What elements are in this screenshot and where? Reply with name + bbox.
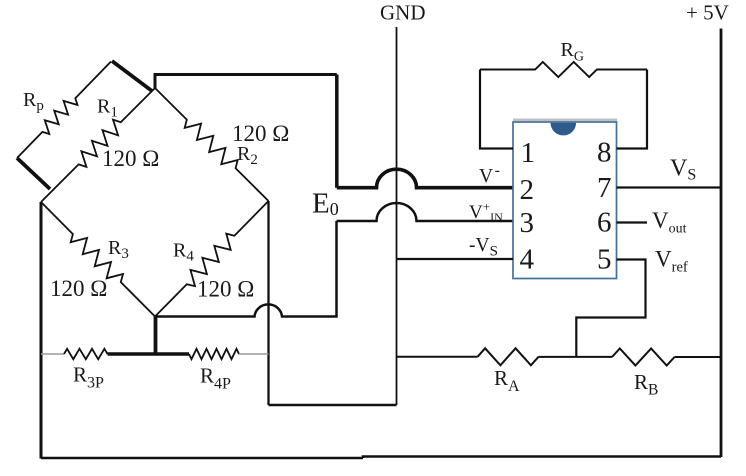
resistor R4 (bridge bottom-right arm): [155, 201, 269, 317]
svg-text:Vout: Vout: [652, 208, 687, 237]
wire: R3P to R4P (bold segment): [108, 352, 190, 356]
svg-text:GND: GND: [380, 1, 426, 25]
svg-text:120 Ω: 120 Ω: [197, 277, 254, 302]
resistor R4P: [189, 349, 239, 359]
svg-text:RB: RB: [634, 370, 658, 399]
wire: E0 lower terminal to IC pin 3 (hop over GND rail): [337, 203, 514, 221]
svg-text:R2: R2: [237, 143, 258, 168]
svg-text:RA: RA: [494, 366, 520, 395]
wire: RG to IC pin 8 (right leg): [617, 70, 648, 149]
svg-text:120 Ω: 120 Ω: [50, 276, 107, 301]
wire: bridge left node down (left rail): [40, 202, 43, 459]
wire: top rail down to E0 upper terminal: [335, 75, 339, 188]
svg-text:5: 5: [597, 244, 612, 276]
svg-text:6: 6: [597, 207, 612, 239]
wire: RA to RB (divider tap): [539, 356, 613, 358]
resistor R3 (bridge bottom-left arm): [41, 202, 155, 317]
svg-text:7: 7: [597, 172, 612, 204]
wire: IC pin 1 to RG (left leg): [480, 70, 513, 149]
wire: R4P to right branch (thin lead): [239, 353, 269, 355]
GND rail (vertical): [396, 27, 398, 405]
wire: bridge top node up to top rail: [155, 75, 337, 89]
svg-text:1: 1: [521, 137, 536, 169]
wire: E0 upper terminal to IC pin 2 (hop over GND rail): [337, 169, 513, 187]
svg-text:2: 2: [520, 174, 535, 206]
svg-text:E0: E0: [312, 188, 339, 220]
wire: bottom +5V return rail (right): [363, 457, 721, 459]
svg-text:Rp: Rp: [23, 89, 44, 114]
wire: bridge bottom node to E0 lower terminal (hop over right branch): [155, 221, 337, 317]
wire: GND rail bottom to bridge right-node branch: [269, 404, 397, 406]
svg-text:+ 5V: + 5V: [686, 1, 729, 25]
svg-text:R3: R3: [108, 237, 129, 262]
wire: Rp lower stub (bold): [17, 158, 50, 189]
svg-text:VS: VS: [670, 156, 696, 184]
op-amp U1 top shadow: [513, 119, 617, 122]
svg-text:R4: R4: [173, 240, 194, 265]
resistor R3P: [64, 349, 108, 359]
wire: GND rail to RA: [397, 356, 478, 358]
wire: IC pin 7 to +5V rail: [617, 186, 722, 188]
svg-text:-VS: -VS: [469, 235, 498, 260]
wire: Rp upper stub (bold): [112, 61, 152, 91]
op-amp U1 pin-1 notch: [551, 123, 577, 136]
+5V rail (right vertical): [720, 29, 723, 458]
wire: GND rail to IC pin 4: [397, 258, 514, 260]
wire: bridge bottom node down to trimming rail (bold): [154, 317, 158, 355]
svg-text:3: 3: [520, 207, 535, 239]
wire: bottom +5V return rail (left): [41, 457, 363, 460]
wire: IC pin 5 to reference divider: [576, 260, 645, 358]
op-amp U1 (DIP-8 instrumentation amplifier body): [513, 122, 617, 279]
wire: IC pin 6 output stub: [617, 221, 648, 223]
resistor R1 (bridge top-left arm): [41, 88, 155, 202]
resistor RG (gain-set resistor): [480, 62, 647, 77]
resistor RA: [478, 348, 539, 365]
resistor R2 (bridge top-right arm): [155, 88, 269, 201]
resistor Rp (parallel trim resistor): [17, 62, 111, 159]
resistor RB: [612, 349, 675, 366]
svg-text:R4P: R4P: [200, 364, 231, 393]
wire: bridge right node down to GND: [267, 201, 269, 405]
svg-text:4: 4: [520, 244, 535, 276]
svg-text:RG: RG: [561, 39, 584, 65]
wire: RB to +5V rail: [675, 356, 722, 358]
svg-text:8: 8: [597, 137, 612, 169]
svg-text:120 Ω: 120 Ω: [102, 146, 159, 171]
wire: left rail to R3P (thin lead): [41, 353, 64, 355]
svg-text:R1: R1: [97, 96, 118, 121]
svg-text:R3P: R3P: [73, 363, 104, 392]
svg-text:Vref: Vref: [655, 247, 688, 276]
svg-text:V-: V-: [479, 162, 500, 187]
